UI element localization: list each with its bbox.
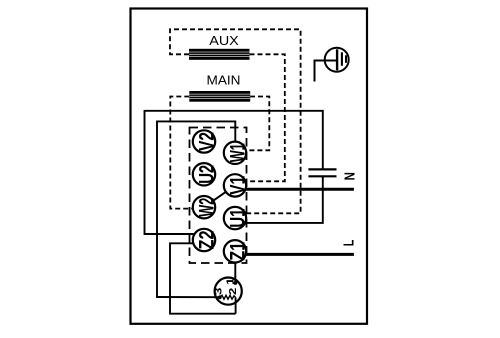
- svg-text:V1: V1: [225, 176, 249, 195]
- svg-text:1: 1: [224, 277, 236, 285]
- svg-text:N: N: [341, 172, 358, 180]
- svg-text:AUX: AUX: [209, 33, 239, 48]
- svg-text:3: 3: [212, 287, 224, 295]
- svg-text:W2: W2: [194, 198, 218, 217]
- svg-text:Z1: Z1: [225, 242, 249, 261]
- svg-text:W1: W1: [225, 143, 249, 162]
- svg-text:MAIN: MAIN: [207, 73, 241, 88]
- svg-text:V2: V2: [194, 132, 218, 151]
- svg-text:2: 2: [226, 287, 238, 295]
- svg-text:L: L: [340, 240, 357, 247]
- svg-text:Z2: Z2: [194, 230, 218, 249]
- svg-text:U2: U2: [194, 165, 218, 184]
- svg-text:U1: U1: [225, 209, 249, 228]
